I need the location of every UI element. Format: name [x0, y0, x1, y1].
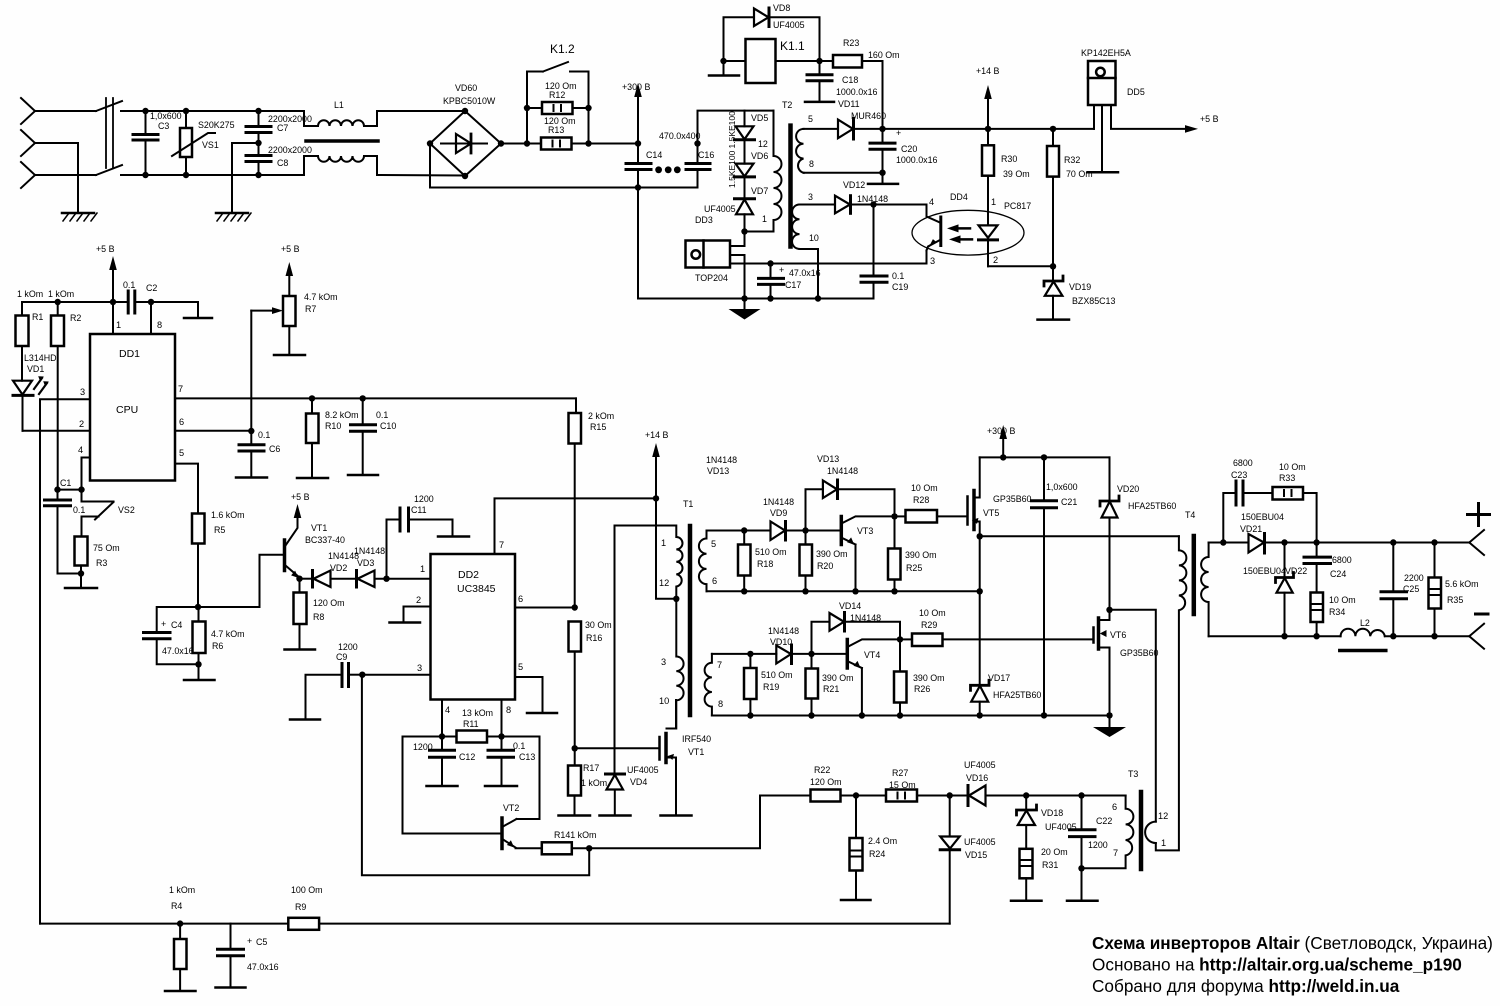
wire C3 to VS1 top [146, 110, 187, 112]
svg-text:GP35B60: GP35B60 [993, 494, 1032, 504]
node DD3 source gnd [741, 295, 747, 301]
capacitor C11 [387, 508, 470, 579]
svg-text:1: 1 [1161, 838, 1166, 848]
power arrow +14V [984, 85, 992, 129]
wire phase1 to switch [35, 110, 96, 112]
svg-text:VT4: VT4 [864, 650, 880, 660]
diode VD8 [724, 8, 820, 61]
svg-text:4.7 kOm: 4.7 kOm [304, 292, 338, 302]
svg-text:510 Om: 510 Om [761, 670, 793, 680]
pin6 DD2 [515, 607, 575, 609]
svg-text:8: 8 [506, 705, 511, 715]
LED VD1 [13, 346, 33, 431]
node C14 bottom [635, 184, 641, 190]
svg-text:DD3: DD3 [695, 215, 713, 225]
resistor R10 [297, 398, 328, 478]
resistor R33 [1273, 487, 1317, 543]
resistor R18 [738, 531, 751, 592]
resistor R1 [16, 302, 29, 346]
resistor R35 [1429, 543, 1442, 637]
zener diode VD20 [1100, 457, 1119, 609]
node R32 top [1050, 126, 1056, 132]
svg-text:R10: R10 [325, 421, 341, 431]
switch SA1 blade b [96, 165, 122, 175]
node R30 top [985, 126, 991, 132]
svg-text:5: 5 [518, 662, 523, 672]
resistor R29 [900, 634, 1094, 647]
node R3 bottom [78, 570, 84, 576]
transformer T1 winding 3-10 [676, 599, 683, 729]
capacitor C19 [861, 205, 887, 299]
node R18 top [741, 527, 747, 533]
wire T2 pin3 to VD12 [800, 204, 836, 206]
svg-text:VD4: VD4 [630, 777, 647, 787]
svg-text:1,0x600: 1,0x600 [150, 111, 182, 121]
svg-text:47.0x16: 47.0x16 [162, 646, 194, 656]
resistor R24 [841, 796, 871, 901]
capacitor C18 [805, 61, 834, 102]
wire pin8 wrap to VT2 collector [502, 737, 540, 820]
svg-text:CPU: CPU [116, 404, 138, 416]
wire R5 node to C4 [157, 607, 198, 632]
wire T2 pin8 to C20 [804, 172, 883, 174]
wire VD12 to opto pin4 [874, 205, 927, 212]
node VD18 top [1023, 792, 1029, 798]
svg-text:C20: C20 [901, 144, 917, 154]
capacitor C1 [45, 490, 82, 574]
ellipsis dots between C14 C16 [655, 166, 662, 173]
svg-text:8.2 kOm: 8.2 kOm [325, 410, 359, 420]
bridge rectifier VD60 inner diode [441, 134, 487, 153]
svg-text:6800: 6800 [1332, 555, 1352, 565]
svg-text:IRF540: IRF540 [682, 734, 711, 744]
node R5 bottom [195, 604, 201, 610]
LED VD1 light arrows [34, 376, 49, 394]
svg-text:13 kOm: 13 kOm [462, 708, 493, 718]
svg-text:HFA25TB60: HFA25TB60 [1128, 501, 1176, 511]
svg-text:R141 kOm: R141 kOm [554, 830, 596, 840]
svg-text:T4: T4 [1185, 510, 1195, 520]
capacitor C22 [1067, 796, 1098, 901]
svg-text:C13: C13 [519, 752, 535, 762]
svg-text:47.0x16: 47.0x16 [247, 962, 279, 972]
node R14 right [586, 845, 592, 851]
wire switch to C3 top [121, 110, 146, 112]
svg-text:K1.1: K1.1 [780, 39, 805, 53]
wire +14 rail [883, 128, 1095, 130]
transistor VT4 [812, 639, 901, 715]
relay contact K1.2 [527, 62, 589, 72]
node VD12 cathode [870, 201, 876, 207]
svg-text:1000.0x16: 1000.0x16 [896, 155, 938, 165]
svg-text:DD5: DD5 [1127, 87, 1145, 97]
resistor R20 [800, 531, 813, 592]
node T2 pin8 / C20 bottom [879, 170, 885, 176]
svg-text:6: 6 [179, 417, 184, 427]
output terminal minus [1469, 624, 1484, 649]
node R18 bottom [741, 588, 747, 594]
svg-text:2 kOm: 2 kOm [588, 411, 614, 421]
wire current sense loop to pin3 [362, 675, 589, 876]
svg-text:1200: 1200 [414, 494, 434, 504]
svg-text:R25: R25 [906, 563, 922, 573]
MOSFET VT1 IRF540 [660, 700, 692, 816]
node C22 bottom [1078, 865, 1084, 871]
node VD15 top [947, 792, 953, 798]
svg-text:R1: R1 [32, 312, 43, 322]
node R25 bottom [891, 588, 897, 594]
svg-text:0.1: 0.1 [73, 505, 85, 515]
potentiometer R7 [274, 262, 305, 355]
capacitor C17 [759, 264, 784, 299]
node bridge bottom [462, 173, 468, 179]
earth ground 1 [62, 213, 97, 221]
opto light arrows [947, 224, 972, 243]
wire R23 to +14 node [862, 61, 883, 129]
node VD3 DD2 pin1 [383, 576, 389, 582]
svg-text:C19: C19 [892, 282, 908, 292]
svg-text:5: 5 [711, 539, 716, 549]
minus sign [1476, 613, 1489, 616]
svg-text:R19: R19 [763, 682, 779, 692]
node +14 rect output [879, 126, 885, 132]
node C7/C8 mid [255, 140, 261, 146]
switch SA1 blade a [96, 101, 122, 111]
svg-text:10: 10 [809, 233, 819, 243]
wire R13 to +300 node [572, 143, 639, 145]
svg-text:R34: R34 [1329, 607, 1345, 617]
svg-text:4: 4 [445, 705, 450, 715]
node C7 top [255, 108, 261, 114]
node R35 top [1431, 539, 1437, 545]
svg-text:VD12: VD12 [843, 180, 865, 190]
svg-text:R5: R5 [214, 525, 225, 535]
diode VD4 [600, 774, 631, 816]
wire switch to C3 bottom [121, 174, 146, 176]
svg-text:VT5: VT5 [983, 508, 999, 518]
svg-text:VT3: VT3 [857, 526, 873, 536]
svg-text:6800: 6800 [1233, 458, 1253, 468]
svg-text:VD17: VD17 [988, 673, 1010, 683]
resistor R11 [442, 731, 502, 743]
svg-text:TOP204: TOP204 [695, 273, 728, 283]
svg-text:+14 В: +14 В [976, 66, 1000, 76]
wire VD13 branch [806, 489, 823, 530]
svg-text:UF4005: UF4005 [627, 765, 659, 775]
svg-text:HFA25TB60: HFA25TB60 [993, 690, 1041, 700]
node R12 left [524, 105, 530, 111]
svg-text:VD11: VD11 [838, 99, 860, 109]
node C25 bottom [1390, 633, 1396, 639]
svg-text:R4: R4 [171, 901, 182, 911]
wire VS1 to C8 [186, 174, 259, 176]
svg-text:1: 1 [661, 538, 666, 548]
transformer T4 secondary [1201, 543, 1209, 637]
pin8 DD1 [150, 302, 152, 334]
svg-text:510 Om: 510 Om [755, 547, 787, 557]
capacitor C12 [427, 737, 458, 787]
wire VD14 branch [812, 622, 830, 654]
svg-text:1: 1 [762, 214, 767, 224]
capacitor C13 [485, 737, 517, 787]
svg-text:VD3: VD3 [357, 558, 374, 568]
node VT4 emitter bottom [859, 712, 865, 718]
svg-text:VD16: VD16 [966, 773, 988, 783]
svg-text:1.5KE100: 1.5KE100 [727, 111, 737, 149]
svg-text:1: 1 [116, 320, 121, 330]
svg-text:2200x2000: 2200x2000 [268, 114, 312, 124]
svg-text:R21: R21 [823, 684, 839, 694]
svg-text:470.0x400: 470.0x400 [659, 131, 701, 141]
svg-text:UF4005: UF4005 [964, 760, 996, 770]
svg-text:VD2: VD2 [330, 563, 347, 573]
node pin8 [498, 733, 504, 739]
svg-text:7: 7 [1113, 848, 1118, 858]
svg-text:C6: C6 [269, 444, 280, 454]
node pin3 DD2 [359, 672, 365, 678]
node R34 bottom [1313, 633, 1319, 639]
node C23 left [1220, 539, 1226, 545]
node C17 top [767, 260, 773, 266]
wire R2 bottom long [57, 346, 59, 490]
svg-text:+300 В: +300 В [622, 82, 650, 92]
svg-text:8: 8 [809, 159, 814, 169]
node K1.1 right [816, 58, 822, 64]
wire DD5 output to +5 [1111, 105, 1198, 133]
svg-text:C22: C22 [1096, 816, 1112, 826]
resistor R30 [982, 129, 994, 225]
wire C2 to pin8 [135, 302, 198, 317]
capacitor C16 [686, 144, 710, 170]
transformer T2 core [788, 126, 793, 247]
svg-text:VT2: VT2 [503, 803, 519, 813]
svg-text:C10: C10 [380, 421, 396, 431]
resistor R15 [569, 398, 582, 607]
svg-text:3: 3 [80, 387, 85, 397]
wire C14 bottom down to primary gnd bus [637, 188, 639, 299]
wire C7C8 midpoint to earth [232, 143, 259, 213]
node +5 rail [110, 299, 116, 305]
svg-text:L2: L2 [1360, 618, 1370, 628]
svg-text:VD15: VD15 [965, 850, 987, 860]
node R17 top [572, 745, 578, 751]
node R12 right [585, 105, 591, 111]
svg-text:VS1: VS1 [202, 140, 219, 150]
svg-text:3: 3 [417, 663, 422, 673]
capacitor C5 [216, 924, 246, 988]
resistor R23 [833, 55, 862, 68]
svg-text:R32: R32 [1064, 155, 1080, 165]
svg-text:1200: 1200 [1088, 840, 1108, 850]
resistor R31 [1011, 849, 1042, 901]
svg-text:+: + [161, 619, 166, 629]
inductor L1 winding bottom [259, 156, 466, 176]
diode VD13 [823, 480, 895, 516]
R7 wiper arrow [251, 307, 283, 431]
svg-text:1 kOm: 1 kOm [48, 289, 74, 299]
svg-text:C7: C7 [277, 123, 288, 133]
IC DD2 UC3845 [431, 554, 516, 700]
resistor R5 [192, 514, 205, 608]
node pin4 [439, 733, 445, 739]
wire phase3 to switch [35, 174, 96, 176]
power arrow +14V T1 [652, 443, 660, 498]
pin5 DD1 to R5 [175, 464, 198, 514]
earth ground 2 [216, 213, 251, 221]
wire R14 to R22 riser [572, 796, 811, 849]
svg-text:1N4148: 1N4148 [768, 626, 799, 636]
svg-text:7: 7 [499, 540, 504, 550]
node C24 top [1313, 539, 1319, 545]
AC input connector phase 2 [21, 130, 35, 156]
svg-text:R9: R9 [295, 902, 306, 912]
svg-text:+5 В: +5 В [96, 244, 115, 254]
svg-text:VD10: VD10 [770, 637, 792, 647]
svg-text:1 kOm: 1 kOm [581, 778, 607, 788]
wire K1.1 left to common [709, 61, 746, 76]
svg-text:R16: R16 [586, 633, 602, 643]
transformer T1 winding 5-6 [699, 531, 707, 592]
node C3 bottom [142, 172, 148, 178]
transformer T4 primary [1156, 536, 1187, 850]
svg-text:VD14: VD14 [839, 601, 861, 611]
svg-text:1 kOm: 1 kOm [169, 885, 195, 895]
svg-text:+5 В: +5 В [281, 244, 300, 254]
svg-text:C2: C2 [146, 283, 157, 293]
node R20 bottom [802, 588, 808, 594]
svg-text:T3: T3 [1128, 769, 1138, 779]
svg-text:R2: R2 [70, 313, 81, 323]
wire negative bus to C16 [638, 170, 698, 188]
node C14 top [635, 140, 641, 146]
node R4 top [177, 920, 183, 926]
node R24 top [853, 792, 859, 798]
node R21 bottom [808, 712, 814, 718]
node pin6 R16 [572, 604, 578, 610]
svg-text:160 Om: 160 Om [868, 50, 900, 60]
svg-text:1.5KE100: 1.5KE100 [727, 150, 737, 188]
svg-text:C24: C24 [1330, 569, 1346, 579]
capacitor C2 [128, 291, 135, 313]
node R2/C1 [54, 486, 60, 492]
svg-text:150EBU04: 150EBU04 [1241, 512, 1284, 522]
resistor R17 [559, 748, 591, 815]
pin7 DD2 to +14 [495, 498, 657, 554]
svg-text:VD13: VD13 [707, 466, 729, 476]
svg-text:+5 В: +5 В [1200, 114, 1219, 124]
resistor R6 [184, 607, 215, 680]
node VT3 emitter bottom [852, 588, 858, 594]
capacitor C10 [348, 398, 378, 475]
svg-text:6: 6 [712, 576, 717, 586]
ground triangle VT6 [1093, 715, 1126, 737]
wire opto pin2 to VD19 [988, 265, 1053, 267]
zener diode VD18 [1017, 796, 1037, 849]
svg-text:+: + [896, 128, 901, 138]
resistor R21 [806, 654, 819, 716]
svg-text:R8: R8 [313, 612, 324, 622]
svg-text:R11: R11 [463, 719, 479, 729]
svg-text:L1: L1 [334, 100, 344, 110]
node VD20 bottom [1106, 607, 1112, 613]
resistor R3 [65, 537, 97, 589]
capacitor C4 [144, 633, 199, 665]
svg-text:1N4148: 1N4148 [706, 455, 737, 465]
svg-text:VS2: VS2 [118, 505, 135, 515]
node bridge top [462, 108, 468, 114]
node VT1 emitter [296, 576, 302, 582]
opto phototransistor [927, 212, 941, 251]
IGBT VT6 GP35B60 [1094, 610, 1110, 716]
diode VD14 [830, 613, 901, 640]
svg-text:1200: 1200 [338, 642, 358, 652]
transformer T3 core [1139, 792, 1144, 869]
node R13 left [524, 140, 530, 146]
svg-text:1000.0x16: 1000.0x16 [836, 87, 878, 97]
node VD22 top [1281, 539, 1287, 545]
node VD19 top [1050, 263, 1056, 269]
wire T1 pin1 riser [614, 526, 616, 774]
svg-text:47.0x16: 47.0x16 [789, 268, 821, 278]
transformer T3 winding 12-1 [1145, 822, 1156, 843]
transformer T2 primary winding [745, 111, 782, 232]
capacitor C24 [1304, 543, 1331, 593]
svg-text:2: 2 [993, 255, 998, 265]
node VD22 bottom [1281, 633, 1287, 639]
svg-text:2: 2 [416, 595, 421, 605]
resistor R14 [542, 842, 572, 854]
node VT5 emitter [977, 533, 983, 539]
node C22 top [1078, 792, 1084, 798]
svg-text:390 Om: 390 Om [822, 673, 854, 683]
resistor R13 [541, 138, 572, 150]
resistor R34 [1311, 593, 1324, 637]
svg-text:+5 В: +5 В [291, 492, 310, 502]
svg-text:VD60: VD60 [455, 83, 477, 93]
svg-text:UF4005: UF4005 [964, 837, 996, 847]
node R26 bottom [897, 712, 903, 718]
svg-text:1.6 kOm: 1.6 kOm [211, 510, 245, 520]
IGBT VT5 GP35B60 [968, 457, 980, 536]
svg-text:4: 4 [929, 197, 934, 207]
svg-text:5.6 kOm: 5.6 kOm [1445, 579, 1479, 589]
ground triangle primary [729, 299, 761, 320]
wire phase2 to earth [35, 143, 78, 213]
node VD17 gnd [977, 712, 983, 718]
node R6 bottom [195, 661, 201, 667]
common bar at C2 [184, 317, 212, 320]
capacitor C20 [868, 129, 898, 184]
wire +300 rail top [980, 456, 1110, 458]
svg-text:1,0x600: 1,0x600 [1046, 482, 1078, 492]
node VT3 base [802, 527, 808, 533]
node C21 gnd [1041, 712, 1047, 718]
svg-text:R28: R28 [913, 495, 929, 505]
node +14 T1 [653, 495, 659, 501]
diode VD2 [300, 571, 357, 588]
svg-text:8: 8 [157, 320, 162, 330]
inductor L1 core [306, 139, 378, 143]
svg-text:C9: C9 [336, 652, 347, 662]
svg-text:VD9: VD9 [770, 508, 787, 518]
capacitor C25 [1381, 543, 1407, 637]
wire +5 top rail [22, 301, 128, 303]
svg-text:Основано на http://altair.org.: Основано на http://altair.org.ua/scheme_… [1092, 955, 1462, 975]
svg-text:7: 7 [717, 660, 722, 670]
svg-text:6: 6 [1112, 802, 1117, 812]
resistor R26 [894, 639, 907, 715]
AC input connector phase 1 [21, 98, 35, 124]
